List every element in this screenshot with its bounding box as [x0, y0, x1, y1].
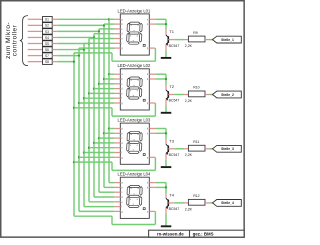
ground symbol GND4: [161, 225, 172, 227]
wire branch seg3 to L01: [99, 28, 114, 30]
label: zum Mikrocontroller: [5, 22, 12, 59]
segment c: [139, 143, 142, 152]
svg-text:S2: S2: [45, 24, 49, 28]
wire net S2 horizontal: [57, 24, 104, 26]
wire commons L04 to T4: [155, 182, 166, 184]
connector pin S5: [28, 43, 43, 45]
pin seg6 L04: [114, 206, 120, 208]
junction S3: [98, 30, 100, 32]
segment dp: [143, 154, 145, 156]
wire emitter to ground T1: [165, 51, 167, 58]
transistor T1 body: [166, 35, 168, 45]
svg-text:R12: R12: [193, 194, 199, 198]
svg-text:BC547: BC547: [169, 153, 180, 157]
segment f: [127, 23, 130, 32]
segment dp: [143, 44, 145, 46]
wire branch seg1 to L04: [109, 182, 114, 184]
wire branch seg1 to L01: [109, 18, 114, 20]
pin common2 L01: [149, 23, 155, 25]
transistor T2 emitter pin: [165, 99, 167, 105]
svg-text:LED-Anzeige L03: LED-Anzeige L03: [118, 118, 151, 123]
transistor T4 collector pin: [165, 193, 167, 198]
pin common1 L04: [149, 182, 155, 184]
svg-text:T1: T1: [169, 29, 174, 34]
pin seg4 L03: [114, 142, 120, 144]
7-segment digit L03: [127, 131, 143, 153]
connector pin S6: [28, 49, 43, 51]
pin seg2 L03: [114, 132, 120, 134]
wire net S1 vertical bus: [108, 19, 110, 182]
transistor T2 collector pin: [165, 85, 167, 90]
svg-text:BC547: BC547: [169, 44, 180, 48]
7-segment digit L02: [127, 77, 143, 99]
connector pin S2: [28, 24, 43, 26]
svg-text:Stelle_1: Stelle_1: [221, 38, 234, 42]
pin seg6 L01: [114, 42, 120, 44]
transistor T4 emitter pin: [165, 208, 167, 214]
curly brace: [20, 16, 28, 66]
transistor T3 collector pin: [165, 139, 167, 144]
segment dp: [143, 99, 145, 101]
pin seg4 L04: [114, 196, 120, 198]
pin seg2 L02: [114, 78, 120, 80]
wire dp route L01: [74, 52, 112, 54]
pin seg6 L03: [114, 152, 120, 154]
wire branch seg5 to L03: [89, 147, 114, 149]
wire branch seg6 to L02: [84, 97, 114, 99]
wire branch seg7 to L03: [79, 156, 114, 158]
wire base to resistor R11: [174, 148, 184, 150]
pin dp L03: [149, 156, 155, 158]
pin seg3 L02: [114, 83, 120, 85]
7-segment digit L01: [127, 22, 143, 44]
wire branch seg6 to L04: [84, 206, 114, 208]
wire resistor to flag Stelle_1: [210, 39, 214, 41]
wire branch seg4 to L02: [94, 88, 114, 90]
wire net S6 vertical bus: [83, 43, 85, 206]
svg-text:BC547: BC547: [169, 99, 180, 103]
svg-text:S6: S6: [45, 48, 49, 52]
transistor T2 body: [166, 90, 168, 100]
wire net S8 vertical bus: [73, 53, 75, 216]
segment d: [128, 205, 139, 207]
wire branch seg2 to L04: [104, 186, 114, 188]
segment f: [127, 187, 130, 196]
connector pin S8: [28, 61, 43, 63]
svg-text:2,2K: 2,2K: [185, 153, 193, 157]
wire commons L03 to T3: [155, 128, 166, 130]
segment g: [129, 32, 140, 34]
pin seg3 L03: [114, 137, 120, 139]
connector pin S4: [28, 36, 43, 38]
resistor R12: [184, 202, 188, 204]
pin seg2 L04: [114, 186, 120, 188]
pin seg5 L02: [114, 92, 120, 94]
pin seg1 L01: [114, 18, 120, 20]
net flag Stelle_4: [211, 202, 216, 204]
svg-text:Stelle_3: Stelle_3: [221, 147, 234, 151]
wire branch seg7 to L04: [79, 210, 114, 212]
wire net S3 horizontal: [57, 30, 99, 32]
pin seg1 L03: [114, 128, 120, 130]
segment dp: [143, 208, 145, 210]
wire emitter to ground T4: [165, 214, 167, 226]
net flag Stelle_2: [211, 94, 216, 96]
wire resistor to flag Stelle_3: [210, 148, 214, 150]
svg-text:S7: S7: [45, 54, 49, 58]
wire branch seg5 to L02: [89, 92, 114, 94]
svg-text:LED-Anzeige L02: LED-Anzeige L02: [118, 63, 151, 68]
title block: [149, 230, 245, 237]
7-segment digit L04: [127, 185, 143, 207]
pin dp L04: [149, 210, 155, 212]
transistor T1 collector pin: [165, 30, 167, 35]
wire commons L02 to T2: [155, 73, 166, 75]
wire net S6 horizontal: [57, 49, 84, 51]
pin seg1 L02: [114, 73, 120, 75]
pin seg4 L02: [114, 88, 120, 90]
wire commons L01 to T1: [155, 18, 166, 20]
wire net S2 vertical bus: [103, 24, 105, 187]
svg-text:S1: S1: [45, 18, 49, 22]
svg-text:rn-wissen.de: rn-wissen.de: [157, 232, 184, 237]
wire branch seg2 to L02: [104, 78, 114, 80]
segment g: [129, 141, 140, 143]
wire base to resistor R9: [174, 39, 184, 41]
pin seg5 L03: [114, 147, 120, 149]
ground symbol GND2: [161, 112, 172, 114]
wire branch seg7 to L02: [79, 102, 114, 104]
wire dp route L04: [74, 215, 112, 217]
segment b: [140, 133, 143, 142]
connector pin S3: [28, 30, 43, 32]
wire branch seg1 to L02: [109, 73, 114, 75]
drawing frame: [1, 1, 244, 237]
segment d: [128, 151, 139, 153]
segment e: [127, 88, 130, 97]
ground symbol GND1: [161, 57, 172, 59]
net flag Stelle_1: [211, 39, 216, 41]
transistor T3 body: [166, 144, 168, 154]
pin seg5 L04: [114, 201, 120, 203]
svg-text:LED-Anzeige L01: LED-Anzeige L01: [118, 8, 151, 13]
svg-text:S4: S4: [45, 36, 49, 40]
junction S6: [83, 48, 85, 50]
wire net S4 horizontal: [57, 36, 94, 38]
pin common2 L04: [149, 186, 155, 188]
wire base to resistor R10: [174, 94, 184, 96]
svg-text:S5: S5: [45, 42, 49, 46]
pin seg5 L01: [114, 38, 120, 40]
segment d: [128, 42, 139, 44]
wire resistor to flag Stelle_4: [210, 202, 214, 204]
pin dp L02: [149, 102, 155, 104]
wire net S3 vertical bus: [98, 29, 100, 192]
pin seg3 L04: [114, 191, 120, 193]
wire branch seg1 to L03: [109, 128, 114, 130]
resistor R9: [184, 39, 188, 41]
wire net S5 horizontal: [57, 43, 89, 45]
segment b: [140, 23, 143, 32]
junction S4: [93, 36, 95, 38]
svg-text:T3: T3: [169, 138, 174, 143]
resistor R11: [184, 148, 188, 150]
wire branch seg7 to L01: [79, 47, 114, 49]
segment b: [140, 187, 143, 196]
wire net S8 horizontal: [57, 61, 74, 63]
wire net S1 horizontal: [57, 18, 109, 20]
transistor T2 base pin: [168, 94, 174, 96]
pin seg7 L01: [114, 47, 120, 49]
connector pin S7: [28, 55, 43, 57]
pin common1 L01: [149, 18, 155, 20]
wire emitter to ground T3: [165, 160, 167, 167]
segment f: [127, 133, 130, 142]
wire branch seg6 to L01: [84, 42, 114, 44]
svg-text:LED-Anzeige L04: LED-Anzeige L04: [118, 172, 151, 177]
pin seg7 L03: [114, 156, 120, 158]
pin seg4 L01: [114, 33, 120, 35]
segment c: [139, 88, 142, 97]
transistor T3 emitter pin: [165, 154, 167, 160]
pin seg7 L04: [114, 210, 120, 212]
wire emitter to ground T2: [165, 106, 167, 113]
segment b: [140, 78, 143, 87]
wire branch seg3 to L04: [99, 191, 114, 193]
pin seg2 L01: [114, 23, 120, 25]
segment e: [127, 143, 130, 152]
segment e: [127, 197, 130, 206]
junction S2: [103, 24, 105, 26]
wire dp route L02: [74, 107, 112, 109]
svg-text:S8: S8: [45, 60, 49, 64]
wire branch seg3 to L03: [99, 137, 114, 139]
segment g: [129, 195, 140, 197]
wire branch seg2 to L03: [104, 132, 114, 134]
pin seg3 L01: [114, 28, 120, 30]
wire base to resistor R12: [174, 202, 184, 204]
svg-text:T2: T2: [169, 84, 174, 89]
wire resistor to flag Stelle_2: [210, 94, 214, 96]
svg-text:R9: R9: [193, 31, 198, 35]
wire net S7 vertical bus: [78, 48, 80, 211]
svg-text:2,2K: 2,2K: [185, 44, 193, 48]
svg-text:T4: T4: [169, 193, 174, 198]
wire branch seg5 to L04: [89, 201, 114, 203]
segment a: [129, 131, 140, 133]
svg-text:Stelle_4: Stelle_4: [221, 201, 234, 205]
pin common1 L02: [149, 73, 155, 75]
segment g: [129, 87, 140, 89]
svg-text:controller: controller: [11, 24, 18, 56]
svg-text:2,2K: 2,2K: [185, 207, 193, 211]
svg-text:R10: R10: [193, 86, 199, 90]
transistor T1 emitter pin: [165, 44, 167, 50]
segment d: [128, 97, 139, 99]
connector pin S1: [28, 18, 43, 20]
pin seg1 L04: [114, 182, 120, 184]
junction S1: [108, 18, 110, 20]
svg-text:R11: R11: [193, 140, 199, 144]
wire branch seg5 to L01: [89, 38, 114, 40]
wire net S7 horizontal: [57, 55, 79, 57]
transistor T3 base pin: [168, 148, 174, 150]
transistor T1 base pin: [168, 39, 174, 41]
resistor R10: [184, 94, 188, 96]
svg-text:Stelle_2: Stelle_2: [221, 93, 234, 97]
pin dp L01: [149, 47, 155, 49]
pin seg7 L02: [114, 102, 120, 104]
junction S7: [78, 54, 80, 56]
pin common2 L02: [149, 78, 155, 80]
wire dp route L03: [74, 161, 112, 163]
ground symbol GND3: [161, 166, 172, 168]
segment a: [129, 77, 140, 79]
junction S5: [88, 42, 90, 44]
pin common2 L03: [149, 132, 155, 134]
transistor T4 body: [166, 198, 168, 208]
wire branch seg3 to L02: [99, 83, 114, 85]
segment f: [127, 78, 130, 87]
segment a: [129, 22, 140, 24]
wire branch seg6 to L03: [84, 152, 114, 154]
svg-text:S3: S3: [45, 30, 49, 34]
wire branch seg4 to L03: [94, 142, 114, 144]
wire net S5 vertical bus: [88, 39, 90, 202]
wire branch seg4 to L01: [94, 33, 114, 35]
segment c: [139, 197, 142, 206]
segment a: [129, 185, 140, 187]
wire branch seg2 to L01: [104, 23, 114, 25]
segment e: [127, 33, 130, 42]
wire branch seg4 to L04: [94, 196, 114, 198]
pin common1 L03: [149, 128, 155, 130]
svg-text:2,2K: 2,2K: [185, 99, 193, 103]
transistor T4 base pin: [168, 202, 174, 204]
svg-text:gez.: BMS: gez.: BMS: [193, 232, 214, 237]
net flag Stelle_3: [211, 148, 216, 150]
pin seg6 L02: [114, 97, 120, 99]
wire net S4 vertical bus: [93, 34, 95, 197]
segment c: [139, 33, 142, 42]
svg-text:BC547: BC547: [169, 207, 180, 211]
